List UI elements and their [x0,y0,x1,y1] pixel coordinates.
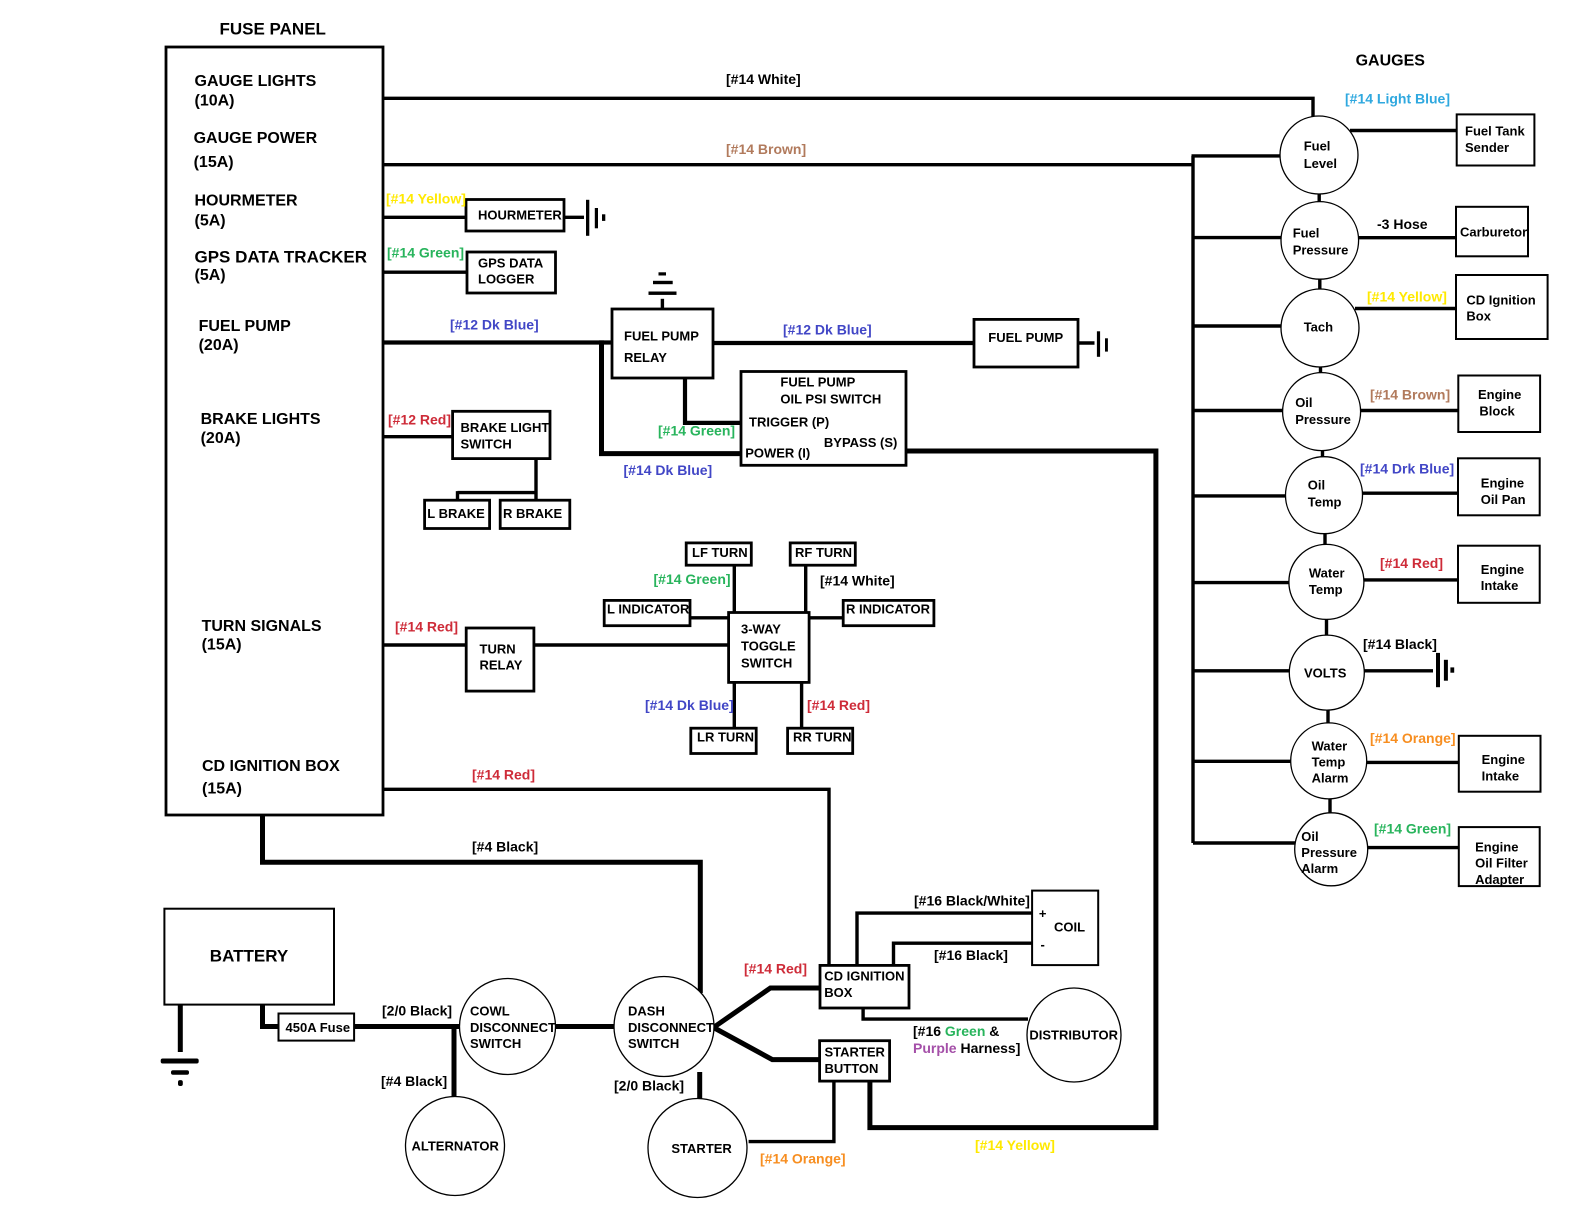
svg-text:POWER (I): POWER (I) [745,445,810,460]
svg-text:R BRAKE: R BRAKE [503,506,563,521]
wire trunk branch to water temp alarm [1193,760,1294,763]
wire oil pressure alarm to engine oil filter adapter #14 Green [1367,846,1460,849]
wire dash disconnect to starter 2/0 Black [697,1072,702,1100]
wire trunk branch to oil pressure alarm [1193,841,1298,844]
wire stub oil pressure to oil temp [1321,448,1324,459]
svg-text:(5A): (5A) [195,267,226,284]
svg-text:HOURMETER: HOURMETER [195,192,299,209]
box 3-way toggle switch [729,613,810,683]
svg-text:Engine: Engine [1481,562,1524,577]
box brake light switch [453,411,550,458]
svg-text:GPS DATA TRACKER: GPS DATA TRACKER [195,247,368,266]
svg-text:[#14 Orange]: [#14 Orange] [760,1151,846,1167]
wire cd ignition box to distributor #16 Green and Purple harness [863,1007,1028,1019]
box engine intake 2 [1459,736,1541,792]
box gps data logger [467,252,556,293]
wire trunk branch to water temp [1193,581,1292,584]
svg-text:[#14 Black]: [#14 Black] [1363,636,1437,652]
circle water temp gauge [1289,544,1364,619]
wire stub fuel pressure to tach [1318,277,1321,291]
svg-text:LOGGER: LOGGER [478,272,535,287]
svg-text:[#14 Dk Blue]: [#14 Dk Blue] [645,697,734,713]
svg-text:Oil Pan: Oil Pan [1481,492,1526,507]
svg-text:Alarm: Alarm [1301,861,1338,876]
svg-text:Oil Filter: Oil Filter [1475,856,1528,871]
circle alternator [406,1097,505,1196]
svg-text:OIL PSI SWITCH: OIL PSI SWITCH [780,391,881,406]
wire cd ignition #14 Red fuse panel to cd ignition box [383,789,829,966]
svg-text:[#14 Red]: [#14 Red] [472,767,535,783]
circle cowl disconnect switch [460,979,556,1075]
wire 450A fuse to cowl disconnect switch 2/0 Black [353,1024,460,1029]
svg-text:(15A): (15A) [194,154,234,171]
wire trunk branch to oil pressure [1193,409,1286,412]
wire stub water temp alarm to oil pressure alarm [1328,797,1331,815]
svg-text:[2/0 Black]: [2/0 Black] [382,1003,452,1019]
svg-text:Engine: Engine [1481,476,1524,491]
svg-text:[#14 Yellow]: [#14 Yellow] [386,191,466,207]
box battery [164,909,334,1005]
circle oil pressure alarm gauge [1295,813,1368,886]
wire L INDICATOR to toggle [689,616,730,619]
wire cd ignition box to coil - #16 Black [894,943,1034,966]
wire #4 Black fuse panel to dash disconnect switch [263,816,701,993]
wire RF TURN to toggle #14 White [804,564,807,613]
svg-text:[#14 Yellow]: [#14 Yellow] [975,1137,1055,1153]
wire gauge-power #14 Brown fuse panel to gauges trunk [383,163,1193,166]
circle distributor [1027,988,1121,1082]
svg-text:TURN: TURN [480,641,516,656]
svg-text:Tach: Tach [1304,320,1333,335]
wire gauges trunk vertical [1191,156,1194,843]
svg-text:L BRAKE: L BRAKE [427,506,485,521]
wire fuel pump relay to fuel pump #12 Dk Blue [712,341,975,345]
box RR TURN [788,728,853,753]
wire branch down to POWER (I) #14 Dk Blue [602,340,743,453]
svg-text:Fuel: Fuel [1304,138,1331,153]
svg-text:L INDICATOR: L INDICATOR [607,602,690,617]
wire stub fuel level to fuel pressure [1317,192,1320,204]
svg-text:Temp: Temp [1309,582,1343,597]
svg-text:DISCONNECT: DISCONNECT [470,1020,556,1035]
svg-text:BRAKE LIGHTS: BRAKE LIGHTS [201,411,321,428]
svg-text:Fuel Tank: Fuel Tank [1465,124,1525,139]
svg-text:(20A): (20A) [199,337,239,354]
wire fuel-pump #12 Dk Blue fuse panel to fuel pump relay [383,340,613,344]
wire trunk branch to volts [1193,669,1292,672]
svg-text:Oil: Oil [1301,829,1318,844]
svg-text:STARTER: STARTER [671,1141,732,1156]
wire BYPASS (S) to starter button #14 Yellow loop [870,451,1156,1128]
svg-text:GPS DATA: GPS DATA [478,256,544,271]
ground hourmeter [586,200,605,236]
box carburetor [1456,207,1528,256]
svg-text:DISTRIBUTOR: DISTRIBUTOR [1029,1027,1118,1042]
wire relay to TRIGGER (P) #14 Green [685,377,742,423]
svg-text:RR TURN: RR TURN [793,729,852,744]
svg-text:CD IGNITION BOX: CD IGNITION BOX [202,758,340,775]
wire dash disconnect to starter button diagonal [714,1028,821,1060]
circle volts gauge [1289,635,1364,710]
svg-text:SWITCH: SWITCH [470,1036,521,1051]
wire stub volts to water temp alarm [1326,708,1329,725]
box turn relay [466,628,534,691]
box LR TURN [691,728,756,753]
svg-text:RF TURN: RF TURN [795,545,852,560]
svg-text:DASH: DASH [628,1004,665,1019]
svg-text:(15A): (15A) [202,636,242,653]
svg-text:[#14 Green]: [#14 Green] [658,423,735,439]
wire LF TURN to toggle [733,564,736,613]
wire battery to 450A fuse [263,1003,281,1027]
box engine oil filter adapter [1459,827,1540,886]
svg-text:[#14 Green]: [#14 Green] [387,245,464,261]
svg-text:[#14 White]: [#14 White] [820,572,895,588]
wire volts to ground #14 Black [1363,669,1433,672]
svg-text:LR TURN: LR TURN [697,729,754,744]
svg-text:(10A): (10A) [195,92,235,109]
wire trunk branch to tach [1193,324,1285,327]
svg-text:Level: Level [1304,156,1337,171]
svg-text:BOX: BOX [824,985,853,1000]
box hourmeter [466,200,564,232]
svg-text:TURN SIGNALS: TURN SIGNALS [202,618,322,635]
svg-text:[#14 Brown]: [#14 Brown] [726,141,806,157]
svg-text:[#16 Black/White]: [#16 Black/White] [914,893,1030,909]
svg-text:Engine: Engine [1482,752,1525,767]
svg-text:Sender: Sender [1465,140,1509,155]
svg-text:[#16 Green &: [#16 Green & [913,1023,999,1039]
svg-text:450A Fuse: 450A Fuse [286,1020,351,1035]
svg-text:[#14 Red]: [#14 Red] [744,961,807,977]
wire starter to starter button #14 Orange [749,1080,834,1142]
svg-text:[#14 Dk Blue]: [#14 Dk Blue] [624,462,713,478]
svg-text:Fuel: Fuel [1293,226,1320,241]
wire hourmeter #14 Yellow fuse panel to hourmeter [383,216,468,219]
wire cd ignition box to coil + #16 Black/White [857,913,1033,966]
wire brake light switch to L/R brake [458,458,537,501]
svg-text:STARTER: STARTER [825,1045,886,1060]
circle oil pressure gauge [1283,373,1361,451]
box 450A fuse [279,1014,355,1041]
svg-text:GAUGES: GAUGES [1356,52,1426,69]
circle fuel pressure gauge [1281,202,1359,280]
wire oil temp to engine oil pan #14 Drk Blue [1362,492,1460,495]
svg-text:Purple Harness]: Purple Harness] [913,1040,1020,1056]
svg-text:GAUGE POWER: GAUGE POWER [194,130,318,147]
box engine block [1458,376,1540,433]
svg-text:Pressure: Pressure [1293,243,1349,258]
svg-text:FUEL PUMP: FUEL PUMP [199,318,291,335]
svg-text:Box: Box [1466,309,1491,324]
svg-text:Carburetor: Carburetor [1460,225,1527,240]
box R INDICATOR [843,600,934,625]
svg-text:FUEL PUMP: FUEL PUMP [988,330,1063,345]
ground fuel pump [1097,331,1108,357]
svg-text:Temp: Temp [1308,494,1342,509]
circle tach gauge [1281,289,1359,367]
box fuel pump [974,319,1078,367]
box fuel pump relay [612,309,713,378]
box L INDICATOR [604,600,690,625]
box coil [1032,891,1098,966]
svg-text:[#12 Dk Blue]: [#12 Dk Blue] [450,317,539,333]
svg-text:VOLTS: VOLTS [1304,666,1347,681]
wire fuel pump to ground [1077,341,1095,344]
wire fuel level to fuel tank sender #14 Light Blue [1350,129,1458,132]
svg-text:[#14 Light Blue]: [#14 Light Blue] [1345,90,1450,106]
circle oil temp gauge [1286,457,1363,534]
wire stub tach to oil pressure [1319,365,1322,375]
svg-text:-: - [1041,937,1045,952]
svg-text:SWITCH: SWITCH [741,655,792,670]
svg-text:3-WAY: 3-WAY [741,621,781,636]
svg-text:Pressure: Pressure [1295,412,1351,427]
box fuel tank sender [1457,114,1535,165]
wire cowl to dash disconnect 2/0 Black [556,1024,615,1029]
svg-text:ALTERNATOR: ALTERNATOR [412,1139,500,1154]
wire trunk branch to fuel pressure [1193,236,1285,239]
svg-text:Water: Water [1312,738,1348,753]
svg-text:FUEL PUMP: FUEL PUMP [624,329,699,344]
wire tach to cd ignition box #14 Yellow [1355,307,1458,310]
svg-text:Alarm: Alarm [1312,771,1349,786]
svg-text:[#14 Yellow]: [#14 Yellow] [1367,288,1447,304]
wire trunk branch to fuel level [1192,154,1286,157]
svg-text:[#14 Red]: [#14 Red] [807,697,870,713]
svg-text:FUEL PUMP: FUEL PUMP [780,375,855,390]
svg-text:[#14 Red]: [#14 Red] [395,618,458,634]
wire gauge-lights #14 White fuse panel to fuel level gauge [383,98,1313,121]
svg-text:Oil: Oil [1295,395,1312,410]
svg-text:Oil: Oil [1308,477,1325,492]
svg-text:-3 Hose: -3 Hose [1377,216,1428,232]
svg-text:[#14 White]: [#14 White] [726,71,801,87]
circle fuel level gauge [1280,116,1358,194]
svg-text:COWL: COWL [470,1004,510,1019]
box cd ignition box right [1456,275,1548,339]
wire water temp alarm to engine intake #14 Orange [1366,761,1460,764]
svg-text:BYPASS (S): BYPASS (S) [824,435,897,450]
ground battery [161,1059,199,1087]
ground fuel pump relay [649,272,677,295]
box LF TURN [686,543,751,565]
svg-text:TRIGGER (P): TRIGGER (P) [749,414,829,429]
svg-text:DISCONNECT: DISCONNECT [628,1020,714,1035]
box cd ignition box [820,965,909,1008]
circle water temp alarm gauge [1291,723,1367,799]
svg-text:GAUGE LIGHTS: GAUGE LIGHTS [195,73,317,90]
svg-text:Pressure: Pressure [1301,845,1357,860]
svg-text:RELAY: RELAY [480,658,523,673]
svg-text:SWITCH: SWITCH [461,436,512,451]
box RF TURN [790,543,855,565]
svg-text:FUSE PANEL: FUSE PANEL [220,19,326,38]
svg-text:[#14 Drk Blue]: [#14 Drk Blue] [1360,461,1454,477]
svg-text:Intake: Intake [1482,768,1520,783]
svg-text:[#14 Orange]: [#14 Orange] [1370,730,1456,746]
box L BRAKE [425,500,490,528]
svg-text:(15A): (15A) [202,781,242,798]
fuse panel [166,47,383,815]
svg-text:BUTTON: BUTTON [825,1061,879,1076]
wire hourmeter to ground [563,216,584,219]
svg-text:CD IGNITION: CD IGNITION [824,969,904,984]
wire stub oil temp to water temp [1323,531,1326,547]
wire turn relay to 3-way toggle switch [533,643,730,646]
svg-text:(20A): (20A) [201,430,241,447]
svg-text:[#16 Black]: [#16 Black] [934,947,1008,963]
svg-text:RELAY: RELAY [624,350,667,365]
wire toggle to RR TURN #14 Red [800,681,803,729]
svg-text:Temp: Temp [1312,755,1346,770]
wire toggle to LR TURN #14 Dk Blue [733,681,736,729]
box starter button [820,1041,890,1081]
svg-text:[#14 Brown]: [#14 Brown] [1370,386,1450,402]
wire battery to ground [178,1003,183,1052]
svg-text:Water: Water [1309,565,1345,580]
svg-text:[#14 Green]: [#14 Green] [1374,821,1451,837]
wire dash disconnect to cd ignition box #14 Red diagonal [714,988,821,1028]
wire turn signals #14 Red fuse panel to turn relay [383,643,467,646]
wire brake lights #12 Red fuse panel to brake light switch [383,435,454,438]
svg-text:(5A): (5A) [195,212,226,229]
wire gps #14 Green fuse panel to gps data logger [383,271,469,274]
circle starter [648,1099,747,1198]
wire fuel pump relay ground stub [661,299,664,310]
box R BRAKE [500,500,570,528]
svg-text:Block: Block [1479,403,1515,418]
svg-text:R INDICATOR: R INDICATOR [846,602,931,617]
svg-text:BRAKE LIGHT: BRAKE LIGHT [461,420,550,435]
wire branch to alternator #4 Black [452,1027,457,1099]
wire oil pressure to engine block #14 Brown [1360,409,1460,412]
box fuel pump oil psi switch [741,372,906,466]
svg-text:[#4 Black]: [#4 Black] [381,1073,447,1089]
ground volts [1436,653,1454,687]
box engine oil pan [1458,458,1540,515]
svg-text:[#14 Green]: [#14 Green] [654,571,731,587]
svg-text:Adapter: Adapter [1475,872,1524,887]
svg-text:[#14 Red]: [#14 Red] [1380,555,1443,571]
svg-text:CD Ignition: CD Ignition [1466,293,1535,308]
svg-text:Engine: Engine [1478,387,1521,402]
svg-text:SWITCH: SWITCH [628,1036,679,1051]
wire toggle to R INDICATOR [808,616,844,619]
svg-text:Engine: Engine [1475,840,1518,855]
svg-text:+: + [1039,906,1047,921]
svg-text:[#4 Black]: [#4 Black] [472,838,538,854]
circle dash disconnect switch [614,977,714,1077]
svg-text:TOGGLE: TOGGLE [741,639,796,654]
svg-text:Intake: Intake [1481,578,1519,593]
svg-text:HOURMETER: HOURMETER [478,208,562,223]
svg-text:BATTERY: BATTERY [210,947,289,966]
svg-text:[#12 Red]: [#12 Red] [388,412,451,428]
wire stub water temp to volts [1325,617,1328,637]
box engine intake [1458,546,1540,603]
wire fuel pressure to carburetor -3 Hose [1357,236,1458,239]
svg-text:[#12 Dk Blue]: [#12 Dk Blue] [783,322,872,338]
wire trunk branch to oil temp [1193,494,1287,497]
svg-text:COIL: COIL [1054,920,1085,935]
svg-text:LF TURN: LF TURN [692,545,748,560]
wire water temp to engine intake #14 Red [1363,578,1460,581]
svg-text:[2/0 Black]: [2/0 Black] [614,1078,684,1094]
